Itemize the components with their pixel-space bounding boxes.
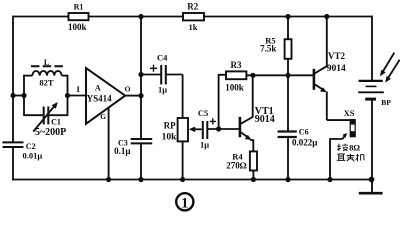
node junction R4 ground [251,177,256,182]
wire bottom ground rail [12,179,372,181]
svg-text:I: I [77,84,81,94]
svg-text:0.1μ: 0.1μ [114,146,130,156]
resistor R2 [183,2,204,33]
wire right rail to battery top [371,16,373,81]
node junction ground rail right end [369,177,375,183]
wire socket plug arm to ground rail [330,139,342,180]
svg-text:L: L [44,58,49,67]
battery BP solar cell [358,81,391,107]
wire tank output to amplifier input [68,95,87,97]
node junction C4 tap [138,72,143,77]
capacitor C6 0.022u [278,75,318,179]
node junction top rail feedback [138,14,143,19]
svg-text:R3: R3 [231,60,242,70]
wire left rail upper [12,16,14,142]
node junction C5 R3 base [216,126,221,131]
svg-text:0.01μ: 0.01μ [23,151,43,161]
svg-text:270Ω: 270Ω [226,161,247,171]
node junction output [138,93,143,98]
wire C4 down to RP [182,75,184,119]
svg-text:VT2: VT2 [328,51,346,61]
wire R4 to ground rail [252,171,254,180]
node junction G pin ground [106,177,111,182]
capacitor C5 1u [198,108,239,149]
capacitor C4 1u [141,53,183,95]
svg-text:10k: 10k [162,133,178,143]
transistor VT1 9014 [240,75,275,151]
svg-text:5~200P: 5~200P [35,127,66,138]
svg-text:0.022μ: 0.022μ [292,137,317,147]
svg-text:100k: 100k [225,82,244,92]
wire VT2 emitter to socket [327,119,350,121]
node junction top rail R5 [285,14,290,19]
wire op-amp G pin to ground [108,108,110,180]
svg-text:C5: C5 [198,108,208,118]
resistor R1 [68,3,88,32]
node junction C3 ground [138,177,143,182]
wire tank right vertical [67,75,69,116]
svg-text:1: 1 [181,195,188,211]
svg-text:R2: R2 [187,2,198,12]
wire tank to left rail connector [13,95,24,97]
wire top supply rail [13,16,372,18]
svg-text:O: O [125,84,131,93]
svg-text:9014: 9014 [327,64,346,74]
svg-text:100k: 100k [68,22,87,32]
svg-text:BP: BP [381,98,391,107]
svg-text:C6: C6 [299,128,309,137]
svg-text:8Ω: 8Ω [349,143,360,153]
label connect 8 ohm earphone [337,143,365,162]
wire tank left vertical [23,75,25,116]
node junction socket ground [327,177,332,182]
svg-text:YS414: YS414 [87,94,113,104]
svg-text:RP: RP [164,121,176,131]
svg-text:G: G [100,112,106,121]
wire right rail battery bottom to ground rail [371,100,373,180]
capacitor C2 0.01u [3,142,43,160]
svg-text:C4: C4 [157,53,168,63]
node junction tank right [65,93,70,98]
svg-text:1k: 1k [189,22,198,32]
wire op-amp output [125,95,141,97]
svg-text:1μ: 1μ [158,85,167,95]
node junction top rail VT2 collector [324,14,329,19]
transistor VT2 9014 [314,17,346,121]
wire RP to ground rail [182,141,184,179]
svg-text:XS: XS [344,108,355,118]
svg-text:9014: 9014 [255,114,275,125]
resistor R4 270ohm [226,151,257,170]
svg-text:A: A [95,83,101,92]
wire feedback vertical upper [140,17,142,139]
resistor R3 100k [219,60,314,129]
capacitor C3 0.1u [114,139,152,157]
node junction RP ground [180,177,185,182]
inductor L 82T [24,58,68,88]
ground [359,180,383,194]
node junction C6 ground [285,177,290,182]
socket XS earphone jack [344,108,356,137]
socket plug arrow [342,133,347,139]
wire feedback vertical lower below C3 [140,144,142,179]
svg-text:R1: R1 [74,3,84,12]
svg-text:82T: 82T [39,77,54,87]
svg-text:C1: C1 [51,117,61,126]
svg-text:7.5k: 7.5k [260,44,276,54]
potentiometer RP 10k [162,118,202,143]
node junction left rail / tank [10,93,15,98]
wire left rail lower [12,148,14,180]
resistor R5 7.5k [260,17,291,76]
light arrows into battery [380,53,400,83]
node junction R5 C6 [285,73,290,78]
node junction tank left [21,93,26,98]
op-amp U1 YS414 [77,68,131,124]
figure number 1 [176,193,193,211]
capacitor C1 variable 5~200P [24,102,68,138]
svg-text:1μ: 1μ [200,139,209,149]
node junction VT1 collector [250,73,255,78]
